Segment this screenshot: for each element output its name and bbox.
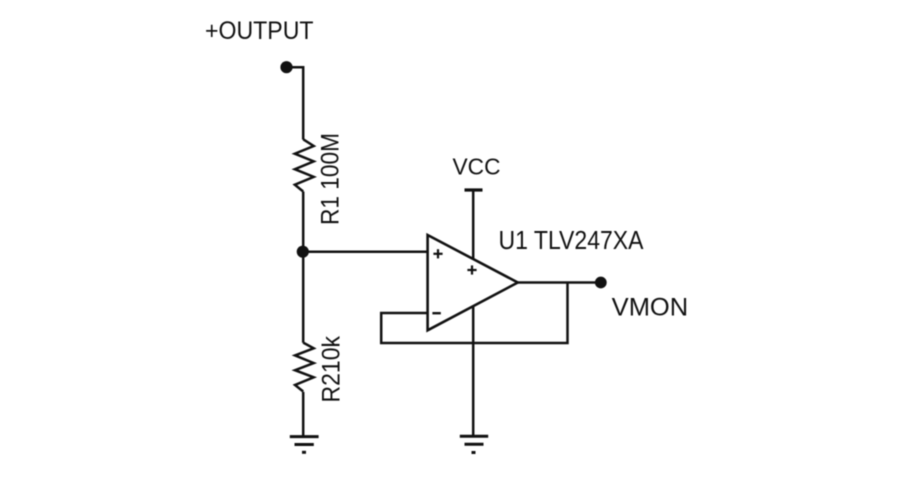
node VMON terminal dot xyxy=(595,277,607,289)
node +OUTPUT terminal dot xyxy=(280,61,292,73)
wire VCC bar down to op-amp positive supply pin xyxy=(472,190,475,260)
svg-text:R1 100M: R1 100M xyxy=(317,133,345,225)
feedback wire: inverting input to output xyxy=(381,283,567,344)
wire from R1 bottom to junction xyxy=(302,192,305,252)
op-amp non-inverting input plus marker xyxy=(433,249,442,258)
wire op-amp negative supply pin down to ground xyxy=(472,306,475,436)
svg-text:R210k: R210k xyxy=(318,336,346,403)
svg-text:VMON: VMON xyxy=(612,294,689,322)
node junction dot (R1/R2/op-amp input) xyxy=(297,246,309,258)
op-amp inverting input minus marker xyxy=(432,312,440,314)
ground symbol under R2 xyxy=(290,437,319,453)
op-amp U1 triangle body xyxy=(428,235,518,330)
wire junction down to R2 top xyxy=(302,252,305,343)
svg-text:VCC: VCC xyxy=(453,154,501,180)
svg-text:U1 TLV247XA: U1 TLV247XA xyxy=(499,225,645,255)
VCC supply bar xyxy=(465,188,483,191)
svg-text:+OUTPUT: +OUTPUT xyxy=(205,17,314,45)
wire junction to op-amp non-inverting input xyxy=(303,250,428,253)
wire op-amp output to VMON dot xyxy=(518,281,601,284)
ground symbol under op-amp xyxy=(460,436,488,452)
resistor R2 zigzag xyxy=(295,343,314,392)
op-amp positive supply plus marker xyxy=(467,265,476,274)
wire from +OUTPUT dot to vertical rail xyxy=(287,66,304,69)
wire from R2 bottom to ground xyxy=(302,392,305,436)
wire vertical from +OUTPUT to R1 top xyxy=(302,66,305,140)
resistor R1 zigzag xyxy=(295,139,314,191)
